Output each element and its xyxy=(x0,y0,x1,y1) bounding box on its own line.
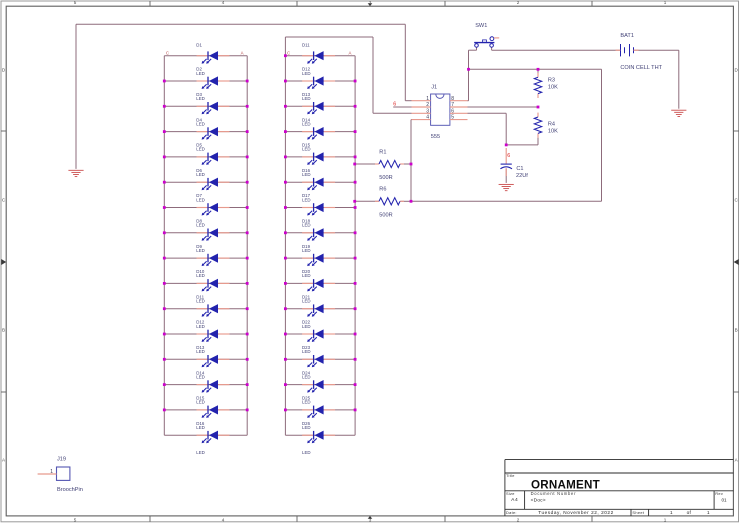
svg-text:A4: A4 xyxy=(511,497,518,503)
wire rung 6 of ladder right xyxy=(285,181,355,183)
svg-text:J19: J19 xyxy=(57,456,66,462)
svg-text:500R: 500R xyxy=(379,175,392,181)
svg-text:<Doc>: <Doc> xyxy=(531,497,546,502)
wire GND net: pin1 to far-left ground, top horizontal xyxy=(76,23,405,25)
border centre arrow right xyxy=(734,259,739,265)
wire VCC net: right vertical up xyxy=(601,69,603,201)
LED ladder left: right rail xyxy=(246,56,248,436)
wire GND net: vertical drop to ground at far left xyxy=(75,24,77,169)
svg-text:LED: LED xyxy=(302,248,311,253)
LED D6 xyxy=(197,181,208,183)
svg-text:LED: LED xyxy=(196,121,205,126)
battery BAT1 terminal stubs xyxy=(616,49,621,51)
junction R6 left on ladder rail xyxy=(353,200,356,203)
connector J19 pin stub xyxy=(38,473,57,475)
svg-text:R3: R3 xyxy=(548,77,555,83)
svg-text:BAT1: BAT1 xyxy=(620,33,634,39)
svg-text:LED: LED xyxy=(302,147,311,152)
svg-text:LED: LED xyxy=(196,172,205,177)
LED D23 xyxy=(302,358,313,360)
IC J1 left pin stubs 1-4 xyxy=(412,100,431,102)
LED D8 xyxy=(197,232,208,234)
svg-text:6: 6 xyxy=(393,101,396,107)
ground far left (GND net) xyxy=(68,170,83,176)
svg-text:C: C xyxy=(287,51,290,56)
IC J1 right pin stubs 8-5 xyxy=(450,100,468,102)
svg-text:R1: R1 xyxy=(379,149,386,155)
LED D22 xyxy=(302,333,313,335)
LED D13 xyxy=(197,358,208,360)
LED D1 xyxy=(197,55,208,57)
LED D5 xyxy=(197,156,208,158)
wire OUT net: drop onto ladder D11 corner xyxy=(284,37,286,56)
svg-text:5: 5 xyxy=(74,517,77,522)
LED D25 xyxy=(302,409,313,411)
LED D24 xyxy=(302,384,313,386)
border zone ticks right xyxy=(733,130,739,132)
svg-text:BroochPin: BroochPin xyxy=(57,487,83,493)
svg-text:3: 3 xyxy=(369,0,372,5)
svg-text:LED: LED xyxy=(196,374,205,379)
junction dots ladder right rails xyxy=(284,80,287,83)
wire R1 left to LED ladder rail xyxy=(355,163,379,165)
svg-text:LED: LED xyxy=(302,324,311,329)
svg-text:LED: LED xyxy=(302,223,311,228)
LED D13 xyxy=(302,105,313,107)
border centre arrow left xyxy=(1,259,6,265)
LED D11 xyxy=(302,55,313,57)
wire OUT net: pin3 to right LED ladder top, horizontal xyxy=(285,36,373,38)
wire VCC net: R6 row to right vertical xyxy=(411,200,602,202)
svg-text:1: 1 xyxy=(664,0,667,5)
wire rung 5 of ladder left xyxy=(164,156,247,158)
svg-text:LED: LED xyxy=(196,197,205,202)
ground C1 negative xyxy=(499,184,514,190)
svg-text:B: B xyxy=(735,328,738,333)
wire rung 15 of ladder left xyxy=(164,409,247,411)
svg-text:LED: LED xyxy=(302,273,311,278)
svg-text:R4: R4 xyxy=(548,121,555,127)
wire rung 4 of ladder left xyxy=(164,131,247,133)
LED D21 xyxy=(302,308,313,310)
svg-text:LED: LED xyxy=(302,450,311,455)
svg-text:LED: LED xyxy=(302,172,311,177)
svg-text:5: 5 xyxy=(74,0,77,5)
svg-text:A: A xyxy=(241,51,244,56)
wire R4 bottom to C1 junction xyxy=(506,144,538,146)
wire SW1 right terminal to battery positive xyxy=(491,47,493,50)
svg-text:10K: 10K xyxy=(548,84,558,90)
svg-text:LED: LED xyxy=(196,71,205,76)
svg-text:LED: LED xyxy=(302,197,311,202)
LED D16 xyxy=(197,434,208,436)
svg-text:LED: LED xyxy=(302,96,311,101)
junction R1 right on VCC vertical xyxy=(410,163,413,166)
LED D18 xyxy=(302,232,313,234)
wire rung 2 of ladder left xyxy=(164,80,247,82)
wire rung 14 of ladder right xyxy=(285,384,355,386)
wire rung 12 of ladder left xyxy=(164,333,247,335)
border zone ticks bottom xyxy=(149,516,151,522)
svg-text:LED: LED xyxy=(302,400,311,405)
LED D11 xyxy=(197,308,208,310)
LED D20 xyxy=(302,282,313,284)
svg-text:LED: LED xyxy=(196,349,205,354)
LED D14 xyxy=(197,384,208,386)
wire rung 7 of ladder left xyxy=(164,207,247,209)
LED ladder right: right rail xyxy=(354,56,356,436)
svg-text:C: C xyxy=(166,51,169,56)
svg-text:2: 2 xyxy=(517,517,520,522)
svg-text:A: A xyxy=(349,51,352,56)
svg-text:2: 2 xyxy=(426,102,429,108)
svg-text:Document Number: Document Number xyxy=(531,491,577,496)
svg-text:LED: LED xyxy=(196,425,205,430)
wire rung 4 of ladder right xyxy=(285,131,355,133)
svg-text:555: 555 xyxy=(431,134,440,140)
svg-text:R6: R6 xyxy=(379,186,386,192)
svg-text:LED: LED xyxy=(196,248,205,253)
svg-text:LED: LED xyxy=(196,147,205,152)
junction R1 left on ladder rail xyxy=(353,163,356,166)
wire rung 3 of ladder left xyxy=(164,105,247,107)
junction dots ladder left rails xyxy=(163,80,166,83)
svg-text:1: 1 xyxy=(670,510,673,515)
LED D14 xyxy=(302,131,313,133)
border centre arrow bottom xyxy=(368,516,373,519)
svg-text:4: 4 xyxy=(222,517,225,522)
wire 555 pin 6 right then down to C1 xyxy=(468,112,507,114)
wire rung 3 of ladder right xyxy=(285,105,355,107)
svg-text:1: 1 xyxy=(707,510,710,515)
wire OUT net: vertical into 555 pin 3 xyxy=(372,37,374,113)
svg-text:500R: 500R xyxy=(379,213,392,219)
LED D12 xyxy=(302,80,313,82)
svg-text:B: B xyxy=(2,328,5,333)
connector J19 xyxy=(57,467,70,480)
wire 555 pin 2 stub wire xyxy=(393,106,411,108)
battery BAT1 xyxy=(621,44,634,56)
svg-text:7: 7 xyxy=(451,102,454,108)
svg-text:Sheet: Sheet xyxy=(632,510,644,515)
LED D2 xyxy=(197,80,208,82)
wire rung 5 of ladder right xyxy=(285,156,355,158)
wire rung 8 of ladder right xyxy=(285,232,355,234)
LED D4 xyxy=(197,131,208,133)
wire rung 9 of ladder left xyxy=(164,257,247,259)
svg-text:SW1: SW1 xyxy=(475,23,487,29)
svg-text:LED: LED xyxy=(302,121,311,126)
LED D26 xyxy=(302,434,313,436)
switch SW1 xyxy=(474,37,494,47)
resistor R4 xyxy=(537,113,539,117)
wire rung 1 of ladder right xyxy=(285,55,355,57)
LED D10 xyxy=(197,282,208,284)
svg-text:Tuesday, November 22, 2022: Tuesday, November 22, 2022 xyxy=(538,510,614,515)
wire C1 to ground xyxy=(505,169,507,183)
svg-text:ORNAMENT: ORNAMENT xyxy=(531,478,600,491)
svg-text:1: 1 xyxy=(664,517,667,522)
wire rung 13 of ladder right xyxy=(285,358,355,360)
LED D17 xyxy=(302,207,313,209)
svg-text:LED: LED xyxy=(196,400,205,405)
LED D16 xyxy=(302,181,313,183)
op-amp/timer IC J1 555 xyxy=(431,94,450,125)
border zone ticks left xyxy=(1,130,6,132)
svg-text:LED: LED xyxy=(302,299,311,304)
svg-text:LED: LED xyxy=(302,374,311,379)
svg-text:4: 4 xyxy=(426,115,429,121)
svg-text:LED: LED xyxy=(196,273,205,278)
LED ladder right: left rail xyxy=(284,56,286,436)
wire rung 1 of ladder left xyxy=(164,55,247,57)
wire rung 9 of ladder right xyxy=(285,257,355,259)
svg-text:8: 8 xyxy=(451,96,454,102)
wire R6 left to LED ladder rail xyxy=(355,200,379,202)
resistor R6 xyxy=(375,200,379,202)
svg-text:of: of xyxy=(687,510,692,516)
junction R6 right on VCC vertical xyxy=(410,200,413,203)
svg-text:LED: LED xyxy=(196,223,205,228)
resistor R1 xyxy=(375,163,379,165)
junction VCC/SW1 node xyxy=(467,68,470,71)
capacitor C1 xyxy=(505,148,507,164)
wire R1 right to VCC vertical xyxy=(401,163,412,165)
svg-text:LED: LED xyxy=(196,96,205,101)
junction R3 top node xyxy=(537,68,540,71)
svg-text:LED: LED xyxy=(196,324,205,329)
svg-text:J1: J1 xyxy=(431,84,437,90)
LED ladder left: left rail xyxy=(163,56,165,436)
svg-text:01: 01 xyxy=(722,498,728,503)
wire VCC junction down to 555 pin 8 xyxy=(468,69,470,100)
svg-text:5: 5 xyxy=(451,115,454,121)
svg-text:LED: LED xyxy=(196,450,205,455)
wire rung 14 of ladder left xyxy=(164,384,247,386)
border centre arrow top xyxy=(368,3,373,6)
wire R6 right to VCC vertical xyxy=(401,200,412,202)
svg-text:Rev: Rev xyxy=(715,491,723,496)
wire 555 pin 7 to R3/R4 junction xyxy=(468,106,539,108)
svg-text:4: 4 xyxy=(222,0,225,5)
svg-text:1: 1 xyxy=(50,469,53,475)
LED D3 xyxy=(197,105,208,107)
wire rung 2 of ladder right xyxy=(285,80,355,82)
LED D7 xyxy=(197,207,208,209)
svg-text:22Uf: 22Uf xyxy=(516,173,528,179)
LED D15 xyxy=(302,156,313,158)
wire rung 16 of ladder left xyxy=(164,434,247,436)
border zone ticks top xyxy=(149,1,151,6)
wire rung 7 of ladder right xyxy=(285,207,355,209)
wire battery negative to ground xyxy=(634,49,679,51)
LED D19 xyxy=(302,257,313,259)
svg-text:LED: LED xyxy=(196,299,205,304)
wire rung 13 of ladder left xyxy=(164,358,247,360)
wire rung 11 of ladder left xyxy=(164,308,247,310)
wire rung 10 of ladder left xyxy=(164,282,247,284)
svg-text:3: 3 xyxy=(369,517,372,522)
svg-text:LED: LED xyxy=(302,71,311,76)
LED D12 xyxy=(197,333,208,335)
junction R3/R4/pin7 node xyxy=(537,106,540,109)
wire VCC net: top horizontal to SW1 junction xyxy=(469,68,602,70)
wire rung 10 of ladder right xyxy=(285,282,355,284)
junction C1/R4/pin6 node xyxy=(505,144,508,147)
svg-text:1: 1 xyxy=(426,96,429,102)
ground battery negative xyxy=(671,110,686,116)
svg-text:Title: Title xyxy=(506,473,515,478)
LED D9 xyxy=(197,257,208,259)
svg-text:3: 3 xyxy=(426,108,429,114)
wire rung 6 of ladder left xyxy=(164,181,247,183)
svg-text:2: 2 xyxy=(517,0,520,5)
svg-text:LED: LED xyxy=(302,349,311,354)
title block frame xyxy=(505,460,734,516)
LED D15 xyxy=(197,409,208,411)
wire rung 16 of ladder right xyxy=(285,434,355,436)
junction dot OUT net at ladder D11 corner xyxy=(284,54,287,57)
svg-text:10K: 10K xyxy=(548,129,558,135)
wire rung 15 of ladder right xyxy=(285,409,355,411)
svg-text:Date:: Date: xyxy=(506,510,517,515)
wire R4 bottom joint xyxy=(537,138,539,145)
IC J1 notch xyxy=(436,94,444,98)
svg-text:Size: Size xyxy=(506,491,515,496)
wire R3 top to VCC junction xyxy=(537,69,539,73)
svg-text:6: 6 xyxy=(507,153,510,159)
svg-text:6: 6 xyxy=(451,108,454,114)
svg-text:D1: D1 xyxy=(196,42,202,47)
svg-text:LED: LED xyxy=(302,425,311,430)
wire SW1 left terminal down to VCC junction xyxy=(476,47,478,50)
wire rung 12 of ladder right xyxy=(285,333,355,335)
switch SW1 NC stub xyxy=(494,37,499,39)
wire GND net: vertical drop into 555 pin 1 xyxy=(404,24,406,100)
resistor R3 xyxy=(537,73,539,77)
svg-text:COIN CELL THT: COIN CELL THT xyxy=(620,65,662,71)
svg-text:C1: C1 xyxy=(516,166,523,172)
wire rung 8 of ladder left xyxy=(164,232,247,234)
wire rung 11 of ladder right xyxy=(285,308,355,310)
wire VCC net: pin4 left then down xyxy=(410,119,413,121)
svg-text:D11: D11 xyxy=(302,42,310,47)
